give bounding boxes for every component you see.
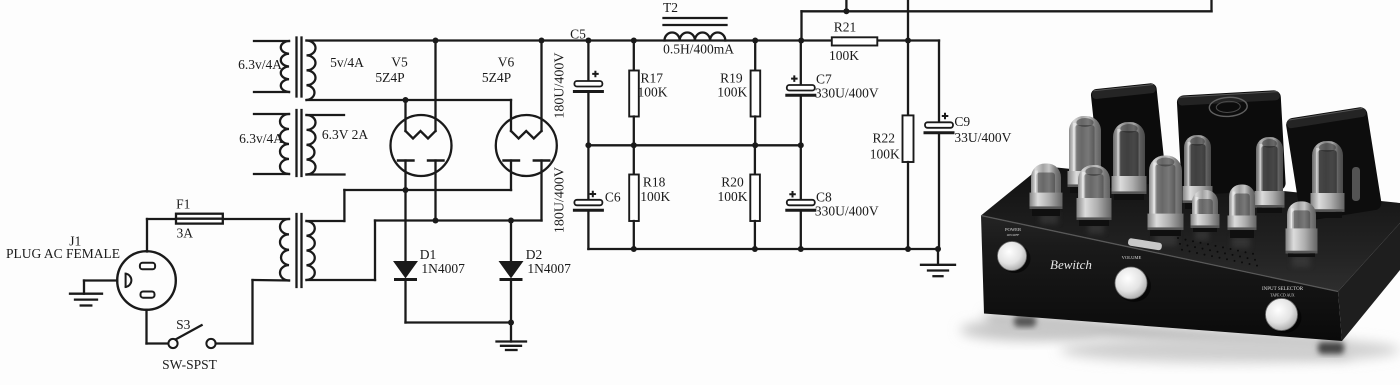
junction B+ rail / V6 heater right leg <box>539 38 545 44</box>
svg-text:V5: V5 <box>391 55 408 70</box>
svg-text:PLUG AC FEMALE: PLUG AC FEMALE <box>6 246 120 261</box>
photo: vacuum tube G <box>1228 185 1257 239</box>
svg-text:R22: R22 <box>872 131 895 146</box>
wire rail corner down to C9 <box>938 41 940 123</box>
wire V5 left plate down to HV top line <box>404 161 406 191</box>
wire jog HV winding top up to plate line <box>343 190 345 221</box>
wire HV bottom line to tube plates <box>375 219 542 221</box>
svg-text:SW-SPST: SW-SPST <box>162 357 218 372</box>
svg-text:1N4007: 1N4007 <box>421 261 465 276</box>
photo: transformer cover right <box>1285 106 1382 222</box>
wire HV winding bottom lead <box>307 279 376 281</box>
transformer T1 heater winding 6.3v/4A #2 (left middle) <box>254 114 289 174</box>
svg-text:5v/4A: 5v/4A <box>330 55 364 70</box>
transformer T1 HV secondary winding (right bottom) <box>307 221 315 280</box>
photo: vacuum tube D (back row) <box>1112 122 1147 200</box>
junction B+ output line / top stub <box>843 8 849 14</box>
wire J1 ground pin lead <box>84 279 117 281</box>
svg-text:100K: 100K <box>717 85 747 100</box>
diode D2 1N4007 <box>500 262 523 280</box>
wire C9 negative down to bottom rail <box>938 133 940 249</box>
wire V5 heater left leg <box>404 100 406 131</box>
wire D2 anode branch <box>510 221 512 262</box>
svg-text:TAPE CD AUX: TAPE CD AUX <box>1270 294 1295 298</box>
wire B+ rail down to C5 <box>587 41 589 82</box>
wire B+ rail to V6 heater right leg <box>540 41 542 132</box>
junction HV bottom line / V5 right plate <box>433 218 439 224</box>
svg-text:R21: R21 <box>834 20 857 35</box>
photo: front panel lettering <box>1005 227 1304 298</box>
svg-text:330U/400V: 330U/400V <box>815 204 879 219</box>
resistor R17 100K <box>629 71 639 117</box>
wire C7 negative to mid rail and on to C8 <box>800 95 802 200</box>
junction choke output / C7 / R21 / riser <box>798 38 804 44</box>
capacitor C8 330U/400V <box>787 200 815 211</box>
svg-text:F1: F1 <box>176 197 190 212</box>
inductor/choke T2 0.5H/400mA (coil and core bars) <box>664 18 727 41</box>
ground (filter return) <box>921 249 955 276</box>
svg-text:100K: 100K <box>638 85 668 100</box>
junction bottom rail / R20 <box>752 246 758 252</box>
photo: floor shadow <box>984 314 1350 358</box>
photo: chassis deck top <box>981 166 1400 292</box>
transformer T1 heater winding 6.3V 2A (right middle) <box>307 115 345 175</box>
wire V5 right plate down to HV bottom line <box>434 161 436 221</box>
svg-text:C5: C5 <box>570 27 586 42</box>
junction diode common line / ground <box>508 320 514 326</box>
transformer T1 core (laminations) <box>297 38 302 288</box>
svg-text:330U/400V: 330U/400V <box>815 86 879 101</box>
photo: chassis right side <box>1338 223 1400 341</box>
resistor R20 100K <box>750 175 760 222</box>
svg-text:D1: D1 <box>420 247 437 262</box>
wire AC plug hot pin up to fuse and on to primary top <box>146 219 148 252</box>
photo: vacuum tube K (faint, far right) <box>1352 167 1360 201</box>
wire AC plug neutral pin down to switch S3 <box>145 310 147 344</box>
wire riser HV winding bottom up to plate line <box>374 221 376 281</box>
photo: vacuum tube I <box>1286 201 1318 257</box>
polarity mark + (C9) <box>942 113 949 120</box>
svg-text:6.3v/4A: 6.3v/4A <box>238 57 282 72</box>
svg-text:VOLUME: VOLUME <box>1122 255 1142 260</box>
ground (J1 earth) <box>70 294 102 306</box>
wire R19 to mid rail <box>754 117 756 146</box>
wire riser choke output node up to output line <box>800 11 802 40</box>
resistor R19 100K <box>751 71 761 117</box>
diode D1 1N4007 <box>394 262 417 280</box>
photo: input selector knob <box>1268 302 1302 333</box>
junction B+ rail / R17 <box>631 38 637 44</box>
junction bottom rail / C9 / ground <box>935 246 941 252</box>
wire V6 right plate down to HV bottom line <box>540 161 542 221</box>
connector J1 PLUG AC FEMALE <box>117 251 176 310</box>
wire mid rail (divider node) <box>588 144 800 146</box>
junction B+ rail / R19 <box>752 38 758 44</box>
junction bottom rail / R22 <box>905 246 911 252</box>
polarity mark + (C7) <box>791 75 798 82</box>
resistor R22 100K <box>903 115 914 162</box>
svg-text:6.3v/4A: 6.3v/4A <box>239 131 283 146</box>
wire R17 to mid rail <box>633 117 635 146</box>
photo: nameplate on deck edge <box>1128 238 1163 251</box>
photo: deck reflections and vent holes <box>1040 212 1310 267</box>
photo: volume knob <box>1117 270 1151 302</box>
svg-text:100K: 100K <box>718 189 748 204</box>
svg-text:180U/400V: 180U/400V <box>553 167 568 233</box>
wire 5v winding bottom to V6 heater left leg <box>307 99 512 101</box>
svg-text:0.5H/400mA: 0.5H/400mA <box>663 42 734 57</box>
wire D1 cathode to ground line <box>404 281 406 323</box>
junction HV top line / V5 left plate / D1 <box>403 187 409 193</box>
photo: vacuum tube B (back row) <box>1068 116 1103 193</box>
svg-text:R17: R17 <box>640 71 663 86</box>
svg-text:INPUT SELECTOR: INPUT SELECTOR <box>1262 287 1304 292</box>
wire V6 left plate down to HV top line <box>510 161 512 191</box>
svg-text:ON/OFF: ON/OFF <box>1007 233 1020 237</box>
junction mid rail / C7-C8 <box>798 142 804 148</box>
junction bottom rail / R18 <box>631 246 637 252</box>
wire C5 negative to mid rail and on to C6 <box>587 92 589 200</box>
photo: vacuum tube C <box>1077 165 1112 226</box>
wire choke output node down to C7 <box>800 41 802 86</box>
wire diode cathodes common line <box>406 321 512 323</box>
junction bottom rail / C8 <box>798 246 804 252</box>
photo: vacuum tube E <box>1148 156 1184 237</box>
svg-text:Bewitch: Bewitch <box>1050 257 1092 272</box>
wire HV winding top lead <box>307 220 345 222</box>
photo: vacuum tube F (back row) <box>1183 135 1213 209</box>
wire mid rail to R18 <box>633 145 635 174</box>
svg-text:C9: C9 <box>954 114 970 129</box>
polarity mark + (C5) <box>592 71 599 78</box>
transformer T1 primary winding (left bottom) <box>280 219 289 281</box>
photo: vacuum tube J (back row) <box>1311 141 1345 218</box>
wire stub B+ tap to top edge <box>845 0 847 11</box>
wire HV top line to tube plates <box>344 189 511 191</box>
svg-text:5Z4P: 5Z4P <box>482 70 511 85</box>
transformer T1 heater winding 6.3v/4A #1 (left top) <box>254 41 289 92</box>
svg-text:100K: 100K <box>870 146 900 161</box>
polarity mark + (C6) <box>590 191 597 198</box>
svg-text:180U/400V: 180U/400V <box>553 53 568 119</box>
photo: transformer cover center <box>1177 90 1286 196</box>
capacitor C5 180U/400V <box>574 81 602 92</box>
junction 5v heater wire / V5 heater left leg <box>403 97 409 103</box>
svg-text:1N4007: 1N4007 <box>527 261 571 276</box>
junction mid rail / C5-C6 <box>585 142 591 148</box>
svg-text:5Z4P: 5Z4P <box>375 70 404 85</box>
svg-text:C7: C7 <box>816 72 832 87</box>
photo: vacuum tube H (back row) <box>1255 137 1285 213</box>
junction R21 right / R22 vertical <box>905 38 911 44</box>
wire R20 to bottom rail <box>754 221 756 249</box>
junction B+ rail / V5 heater right leg <box>433 38 439 44</box>
wire R22 to bottom rail <box>907 162 909 249</box>
switch S3 SW-SPST <box>168 325 215 348</box>
photo: chassis front panel <box>981 216 1342 342</box>
svg-text:POWER: POWER <box>1005 227 1022 232</box>
fuse F1 3A <box>176 214 223 224</box>
resistor R21 100K (horizontal, on B+ rail) <box>832 37 878 45</box>
polarity mark + (C8) <box>789 191 796 198</box>
photo: vacuum tube M <box>1191 190 1220 232</box>
wire C6 negative down to bottom rail <box>587 210 589 249</box>
svg-text:T2: T2 <box>663 0 678 15</box>
capacitor C6 180U/400V <box>574 200 602 211</box>
svg-text:S3: S3 <box>176 317 191 332</box>
svg-text:C8: C8 <box>816 190 832 205</box>
resistor R18 100K <box>629 175 639 222</box>
photo: foot left <box>1014 316 1036 327</box>
wire B+ rail to R19 <box>754 41 756 71</box>
wire screen supply from top edge through R21 node down to R22 <box>907 0 909 115</box>
wire B+ top rail (node B+) <box>307 39 940 41</box>
svg-text:33U/400V: 33U/400V <box>954 130 1011 145</box>
svg-text:C6: C6 <box>605 190 621 205</box>
wire D2 cathode to ground line <box>510 281 512 323</box>
photo: vacuum tube A <box>1030 164 1063 217</box>
wire bottom return rail <box>588 248 938 250</box>
svg-text:D2: D2 <box>526 247 543 262</box>
svg-text:6.3V 2A: 6.3V 2A <box>322 127 369 142</box>
wire B+ output line to amplifier (top) <box>802 10 1212 12</box>
junction B+ rail / C5 <box>585 38 591 44</box>
wire mid rail to R20 <box>754 145 756 174</box>
junction mid rail / R17-R18 <box>631 142 637 148</box>
rectifier tube V6 5Z4P (envelope, heater, two plates) <box>496 115 557 176</box>
svg-text:100K: 100K <box>829 48 859 63</box>
capacitor C7 330U/400V <box>787 85 815 95</box>
wire B+ output line exit at top edge <box>1210 0 1212 11</box>
transformer T1 rectifier heater winding 5v/4A (right top) <box>307 41 316 101</box>
svg-text:100K: 100K <box>640 189 670 204</box>
photo: foot right <box>1318 342 1344 354</box>
svg-text:3A: 3A <box>177 226 194 241</box>
wire B+ rail to R17 <box>633 41 635 71</box>
junction HV bottom line / D2 branch <box>508 218 514 224</box>
svg-text:R18: R18 <box>643 175 666 190</box>
svg-text:R20: R20 <box>721 175 744 190</box>
wire C8 negative down to bottom rail <box>800 210 802 249</box>
rectifier tube V5 5Z4P (envelope, heater, two plates) <box>391 115 452 176</box>
svg-text:V6: V6 <box>498 55 515 70</box>
junction mid rail / R19-R20 <box>752 142 758 148</box>
wire D1 anode branch <box>404 190 406 262</box>
wire B+ rail to V5 heater right leg <box>434 41 436 132</box>
wire switch S3 to primary bottom <box>216 342 253 344</box>
svg-text:R19: R19 <box>720 71 743 86</box>
photo: power knob <box>1000 244 1031 273</box>
ground (diode return) <box>497 323 527 351</box>
wire R18 to bottom rail <box>633 221 635 249</box>
photo: transformer cover left <box>1090 83 1166 189</box>
capacitor C9 33U/400V <box>925 122 953 133</box>
